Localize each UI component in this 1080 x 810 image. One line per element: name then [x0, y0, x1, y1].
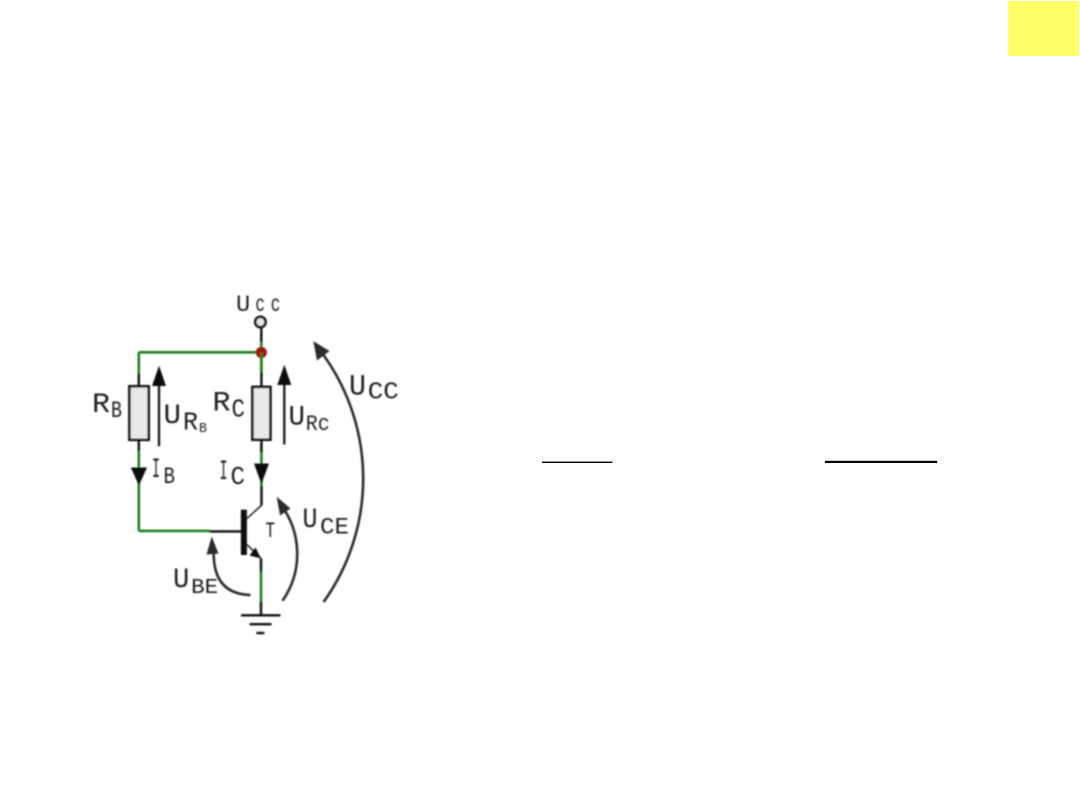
resistor RC	[252, 387, 270, 440]
svg-text:URc: URc	[289, 403, 330, 438]
svg-text:RC: RC	[213, 389, 246, 425]
arc UBE	[214, 552, 251, 595]
arrowhead UCC	[313, 341, 329, 360]
svg-text:IB: IB	[152, 455, 175, 490]
arc UCC	[318, 347, 364, 602]
wire collector (black)	[260, 486, 262, 505]
svg-text:UCE: UCE	[303, 505, 350, 541]
arrow IB (current arrowhead)	[131, 468, 147, 486]
wire node vertical (green)	[260, 342, 263, 372]
fraction line 2	[825, 461, 937, 463]
resistor RB	[129, 386, 148, 440]
wire left branch down (green)	[138, 352, 141, 373]
svg-text:RB: RB	[92, 390, 122, 424]
svg-text:UBE: UBE	[173, 565, 218, 600]
wire emitter (black)	[260, 559, 262, 573]
node junction dot (red)	[256, 347, 267, 358]
wire terminal to node (black)	[260, 328, 262, 342]
wire above RC (black)	[260, 372, 262, 387]
arc UCE	[280, 503, 298, 601]
arrow IC (current arrowhead)	[254, 464, 269, 485]
transistor emitter lead	[247, 545, 261, 559]
wire below RC (black)	[260, 440, 262, 452]
wire into RB (black)	[138, 374, 140, 387]
transistor T base bar	[241, 510, 247, 555]
wire collector (green)	[260, 444, 263, 486]
wire emitter (green)	[260, 572, 263, 602]
arrow URc	[283, 382, 285, 445]
wire emitter to ground (black)	[260, 602, 262, 615]
fraction line 1	[542, 462, 613, 463]
wire below RB (green)	[138, 451, 141, 531]
wire below RB (black)	[138, 440, 140, 452]
highlight block top-right	[1008, 1, 1079, 56]
arrow URB	[158, 383, 160, 446]
svg-text:IC: IC	[220, 457, 246, 492]
wire above RC (green)	[260, 353, 263, 373]
wire base horizontal (black)	[210, 530, 241, 532]
terminal Ucc	[255, 317, 265, 327]
arrowhead UCE	[277, 497, 291, 516]
wire top horizontal (green)	[139, 351, 261, 354]
arrowhead UBE	[207, 537, 219, 555]
svg-text:Ucc: Ucc	[236, 292, 280, 318]
ground	[241, 614, 280, 616]
svg-text:UCC: UCC	[349, 371, 399, 407]
transistor collector lead	[247, 505, 262, 518]
transistor emitter arrowhead	[250, 548, 262, 559]
svg-text:T: T	[266, 519, 276, 544]
svg-text:URB: URB	[164, 401, 208, 438]
wire base horizontal (green)	[139, 530, 210, 533]
